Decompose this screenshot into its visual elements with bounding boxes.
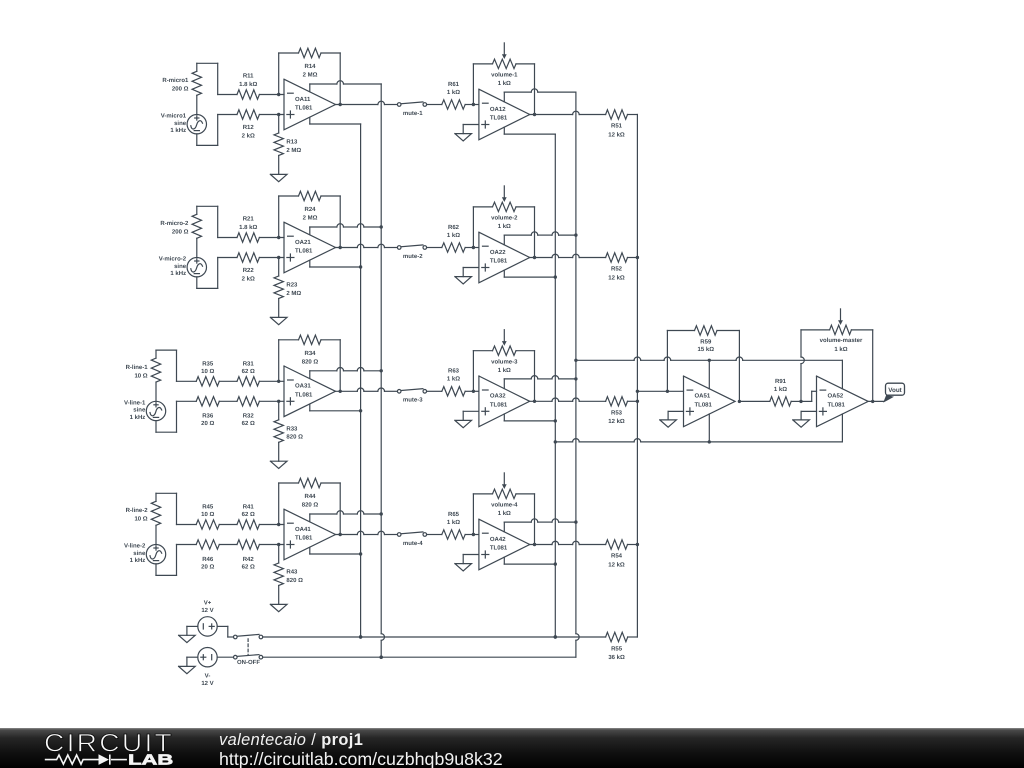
svg-text:volume-2: volume-2 — [491, 215, 518, 222]
svg-text:R23: R23 — [286, 282, 298, 289]
svg-text:10 Ω: 10 Ω — [134, 372, 147, 379]
svg-text:R21: R21 — [243, 216, 255, 223]
svg-text:1 kΩ: 1 kΩ — [447, 519, 460, 526]
svg-text:200 Ω: 200 Ω — [172, 86, 189, 93]
svg-text:volume-4: volume-4 — [491, 502, 518, 509]
svg-text:62 Ω: 62 Ω — [242, 420, 255, 427]
svg-text:OA52: OA52 — [828, 393, 844, 400]
svg-text:sine: sine — [133, 550, 146, 557]
svg-text:10 Ω: 10 Ω — [201, 368, 214, 375]
svg-text:TL081: TL081 — [295, 105, 313, 112]
svg-text:1 kΩ: 1 kΩ — [498, 223, 511, 230]
svg-text:2 kΩ: 2 kΩ — [242, 132, 255, 139]
svg-text:12 kΩ: 12 kΩ — [608, 418, 625, 425]
svg-text:2 MΩ: 2 MΩ — [286, 290, 301, 297]
svg-text:sine: sine — [174, 263, 187, 270]
svg-text:V-line-2: V-line-2 — [124, 543, 146, 550]
svg-text:R55: R55 — [611, 645, 623, 652]
svg-text:R51: R51 — [611, 123, 623, 130]
svg-text:V+: V+ — [204, 599, 212, 606]
svg-text:12 V: 12 V — [201, 680, 213, 687]
svg-text:1 kΩ: 1 kΩ — [834, 346, 847, 353]
svg-text:12 kΩ: 12 kΩ — [608, 274, 625, 281]
svg-text:mute-1: mute-1 — [403, 110, 423, 117]
svg-text:R91: R91 — [775, 378, 787, 385]
svg-text:12 V: 12 V — [201, 607, 213, 614]
svg-text:R22: R22 — [243, 267, 255, 274]
svg-text:OA31: OA31 — [295, 383, 311, 390]
svg-text:TL081: TL081 — [490, 115, 508, 122]
svg-text:15 kΩ: 15 kΩ — [698, 346, 715, 353]
svg-text:20 Ω: 20 Ω — [201, 563, 214, 570]
svg-text:mute-2: mute-2 — [403, 253, 423, 260]
svg-text:36 kΩ: 36 kΩ — [608, 654, 625, 661]
svg-text:62 Ω: 62 Ω — [242, 563, 255, 570]
svg-text:mute-4: mute-4 — [403, 540, 423, 547]
svg-text:R61: R61 — [448, 81, 460, 88]
svg-text:OA21: OA21 — [295, 239, 311, 246]
svg-text:R42: R42 — [243, 556, 255, 563]
svg-text:Vout: Vout — [888, 387, 902, 394]
svg-text:R43: R43 — [286, 569, 298, 576]
svg-text:R12: R12 — [243, 124, 255, 131]
svg-text:820 Ω: 820 Ω — [286, 434, 303, 441]
svg-text:1 kΩ: 1 kΩ — [498, 510, 511, 517]
svg-text:R34: R34 — [304, 350, 316, 357]
svg-text:R36: R36 — [202, 413, 214, 420]
svg-text:2 MΩ: 2 MΩ — [286, 147, 301, 154]
svg-text:1.8 kΩ: 1.8 kΩ — [239, 224, 257, 231]
svg-text:R32: R32 — [243, 413, 255, 420]
svg-text:OA12: OA12 — [490, 106, 506, 113]
svg-text:R41: R41 — [243, 504, 255, 511]
svg-text:R-line-1: R-line-1 — [126, 364, 149, 371]
svg-text:R24: R24 — [304, 206, 316, 213]
svg-text:OA32: OA32 — [490, 393, 506, 400]
svg-text:sine: sine — [133, 407, 146, 414]
svg-text:V-micro1: V-micro1 — [161, 113, 187, 120]
svg-text:2 MΩ: 2 MΩ — [303, 215, 318, 222]
svg-text:1 kΩ: 1 kΩ — [498, 80, 511, 87]
svg-text:R63: R63 — [448, 368, 460, 375]
svg-text:R-line-2: R-line-2 — [126, 507, 149, 514]
svg-text:volume-1: volume-1 — [491, 72, 518, 79]
svg-text:OA22: OA22 — [490, 249, 506, 256]
svg-text:R53: R53 — [611, 410, 623, 417]
svg-text:TL081: TL081 — [295, 391, 313, 398]
svg-text:R-micro-2: R-micro-2 — [160, 220, 189, 227]
svg-text:2 kΩ: 2 kΩ — [242, 275, 255, 282]
svg-text:R45: R45 — [202, 504, 214, 511]
svg-text:820 Ω: 820 Ω — [302, 502, 319, 509]
svg-text:TL081: TL081 — [295, 248, 313, 255]
svg-text:TL081: TL081 — [828, 402, 846, 409]
svg-text:2 MΩ: 2 MΩ — [303, 72, 318, 79]
svg-text:V-micro-2: V-micro-2 — [159, 256, 187, 263]
svg-text:LAB: LAB — [128, 752, 173, 767]
svg-text:R44: R44 — [304, 493, 316, 500]
svg-text:20 Ω: 20 Ω — [201, 420, 214, 427]
svg-text:1 kHz: 1 kHz — [170, 270, 186, 277]
svg-text:R52: R52 — [611, 266, 623, 273]
svg-text:R11: R11 — [243, 73, 254, 80]
svg-text:R14: R14 — [304, 63, 316, 70]
svg-text:volume-master: volume-master — [820, 337, 863, 344]
svg-text:820 Ω: 820 Ω — [286, 577, 303, 584]
svg-text:R35: R35 — [202, 360, 214, 367]
svg-text:1 kΩ: 1 kΩ — [774, 386, 787, 393]
svg-text:V-line-1: V-line-1 — [124, 399, 146, 406]
svg-text:TL081: TL081 — [490, 258, 508, 265]
svg-text:1 kHz: 1 kHz — [170, 127, 186, 134]
svg-text:mute-3: mute-3 — [403, 397, 423, 404]
svg-text:R46: R46 — [202, 556, 214, 563]
svg-text:1 kΩ: 1 kΩ — [498, 367, 511, 374]
svg-text:200 Ω: 200 Ω — [172, 229, 189, 236]
svg-text:12 kΩ: 12 kΩ — [608, 131, 625, 138]
svg-text:R33: R33 — [286, 426, 298, 433]
svg-text:TL081: TL081 — [490, 401, 508, 408]
svg-text:1.8 kΩ: 1.8 kΩ — [239, 81, 257, 88]
svg-text:1 kΩ: 1 kΩ — [447, 89, 460, 96]
svg-text:volume-3: volume-3 — [491, 358, 518, 365]
svg-text:R65: R65 — [448, 511, 460, 518]
svg-text:1 kHz: 1 kHz — [130, 414, 146, 421]
svg-text:TL081: TL081 — [295, 535, 313, 542]
svg-text:1 kΩ: 1 kΩ — [447, 376, 460, 383]
svg-text:1 kΩ: 1 kΩ — [447, 232, 460, 239]
svg-text:12 kΩ: 12 kΩ — [608, 561, 625, 568]
svg-text:R62: R62 — [448, 224, 460, 231]
svg-text:OA51: OA51 — [695, 393, 711, 400]
svg-text:10 Ω: 10 Ω — [201, 511, 214, 518]
svg-text:V-: V- — [205, 672, 211, 679]
svg-text:TL081: TL081 — [490, 545, 508, 552]
svg-text:820 Ω: 820 Ω — [302, 358, 319, 365]
svg-text:OA11: OA11 — [295, 96, 311, 103]
svg-text:R13: R13 — [286, 139, 298, 146]
svg-text:R59: R59 — [700, 339, 712, 346]
svg-text:OA42: OA42 — [490, 536, 506, 543]
svg-text:R31: R31 — [243, 360, 255, 367]
svg-text:TL081: TL081 — [695, 402, 713, 409]
svg-text:OA41: OA41 — [295, 526, 311, 533]
svg-text:1 kHz: 1 kHz — [130, 557, 146, 564]
svg-text:10 Ω: 10 Ω — [134, 516, 147, 523]
svg-text:62 Ω: 62 Ω — [242, 511, 255, 518]
svg-text:62 Ω: 62 Ω — [242, 368, 255, 375]
svg-text:ON-OFF: ON-OFF — [237, 659, 260, 666]
svg-text:R-micro1: R-micro1 — [162, 77, 189, 84]
svg-text:sine: sine — [174, 120, 187, 127]
svg-text:R54: R54 — [611, 553, 623, 560]
